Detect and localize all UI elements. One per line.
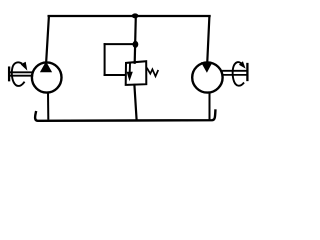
motor M1 circle	[192, 62, 222, 92]
wire main vertical to valve	[135, 17, 136, 63]
wire valve drain	[134, 85, 136, 120]
shaft M1 end bar	[246, 64, 248, 80]
shaft P1 end bar	[8, 68, 10, 81]
relief valve spring	[147, 68, 158, 76]
wire motor M1 to bus	[209, 93, 211, 119]
relief valve flow arrow	[129, 64, 131, 73]
shaft motor M1	[223, 70, 247, 72]
relief valve V1 body	[126, 61, 147, 85]
node pilot junction	[133, 41, 139, 48]
wire pump P1 to bus	[47, 93, 49, 119]
wire pilot horizontal top	[105, 43, 136, 45]
node top junction	[132, 13, 139, 18]
shaft pump P1	[9, 71, 32, 73]
wire left riser	[46, 16, 49, 61]
motor M1 inlet triangle	[201, 62, 213, 72]
wire pilot into valve	[105, 74, 125, 76]
wire top pressure line	[49, 15, 210, 17]
wire bottom return bus	[35, 111, 215, 121]
pump P1 outlet triangle	[40, 61, 52, 72]
pump P1 circle	[32, 62, 62, 92]
rotation arrow M1	[233, 62, 244, 86]
wire right riser	[207, 16, 209, 61]
rotation arrow P1	[12, 62, 24, 86]
wire pilot vertical	[104, 44, 106, 75]
